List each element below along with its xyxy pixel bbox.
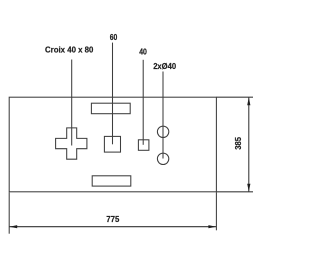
svg-text:385: 385 — [233, 137, 243, 150]
svg-text:60: 60 — [110, 32, 118, 42]
svg-text:Croix 40 x 80: Croix 40 x 80 — [45, 45, 94, 55]
svg-text:775: 775 — [106, 214, 119, 224]
svg-text:40: 40 — [139, 46, 147, 56]
svg-text:2xØ40: 2xØ40 — [153, 61, 176, 71]
